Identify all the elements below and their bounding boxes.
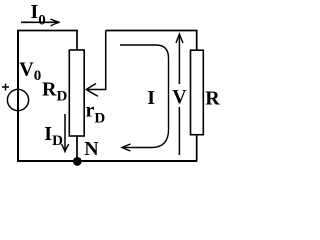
wire: top wire of right loop with right corner feed to resistor R xyxy=(106,31,197,50)
arrow I (loop current arc with left-pointing arrowhead) xyxy=(120,45,169,151)
resistor RD (body) xyxy=(69,50,84,136)
svg-text:RD: RD xyxy=(42,78,67,104)
arrow ID (diode current, pointing down) xyxy=(62,114,69,152)
arrow V (voltage across R, pointing up; interrupted by label) xyxy=(176,34,183,155)
plus polarity mark of V0 xyxy=(2,84,9,91)
wire: bottom wire common to both loops xyxy=(17,160,197,162)
svg-text:ID: ID xyxy=(44,123,63,149)
voltage source V0 (circle symbol) xyxy=(7,89,28,110)
resistor R (body) xyxy=(191,50,204,135)
svg-text:N: N xyxy=(84,138,99,160)
svg-text:rD: rD xyxy=(86,100,106,127)
svg-text:V: V xyxy=(172,86,187,108)
svg-text:R: R xyxy=(205,88,220,110)
svg-text:I0: I0 xyxy=(31,1,46,29)
svg-text:I: I xyxy=(147,87,155,109)
wire: left vertical of right loop turning into rD pointer xyxy=(88,31,106,90)
node N junction dot xyxy=(73,157,82,166)
arrow I0 (current into circuit, pointing right) xyxy=(21,19,60,26)
wire: feed from resistor RD down to node N xyxy=(76,136,78,162)
wire: feed from resistor R down to bottom wire xyxy=(196,135,198,162)
wire: top wire of left loop xyxy=(17,30,78,32)
wire: feed from top wire down to resistor RD xyxy=(76,31,78,50)
wire: left vertical from top wire to bottom wire xyxy=(17,30,19,162)
svg-text:V0: V0 xyxy=(19,59,41,84)
arrowhead of rD pointer (pointing left at RD body) xyxy=(86,84,98,97)
